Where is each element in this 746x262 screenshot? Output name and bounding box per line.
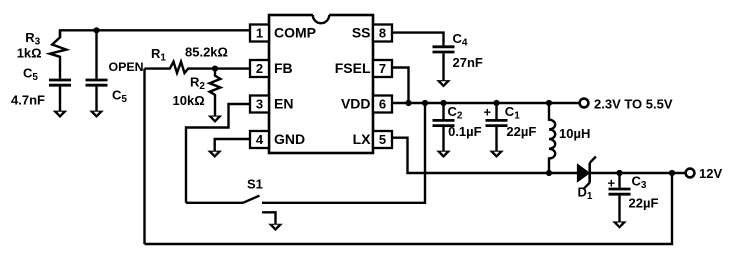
capacitor C2 [433, 120, 455, 125]
switch S1 blade and contacts [186, 202, 243, 204]
wire open C5 to ground [95, 87, 97, 112]
wire VDD to C2 [442, 103, 444, 119]
terminal 2.3V TO 5.5V [580, 99, 589, 108]
svg-text:1kΩ: 1kΩ [17, 45, 42, 60]
svg-text:85.2kΩ: 85.2kΩ [185, 44, 228, 59]
svg-text:2: 2 [256, 61, 263, 76]
svg-text:COMP: COMP [274, 25, 316, 41]
node FSEL/VDD [405, 100, 411, 106]
ground [436, 80, 451, 87]
capacitor C1 [486, 120, 508, 125]
wire pin4 GND stub [215, 139, 250, 151]
wire C4 to ground [442, 53, 444, 81]
wire pin8 (SS) to C4 [392, 33, 444, 46]
wire D1 to 12V terminal [591, 172, 686, 174]
svg-text:OPEN: OPEN [109, 60, 144, 74]
ground [436, 151, 451, 158]
svg-text:7: 7 [379, 61, 386, 76]
wire feedback drop from R1 left to bottom loop [143, 69, 145, 244]
capacitor C3 [609, 189, 631, 194]
node C2 [440, 100, 446, 106]
node L1 bottom [546, 170, 552, 176]
svg-text:4.7nF: 4.7nF [11, 93, 45, 108]
node FB junction [212, 66, 218, 72]
svg-text:12V: 12V [699, 166, 722, 181]
wire EN path pin3 to switch [186, 104, 250, 203]
wire VDD line pin6 to input terminal [392, 102, 580, 104]
svg-text:FSEL: FSEL [335, 60, 371, 76]
pin 3 box [250, 96, 269, 113]
pin 8 box [373, 25, 392, 42]
ground [53, 111, 68, 118]
svg-text:LX: LX [353, 131, 372, 147]
terminal 12V [686, 169, 695, 178]
svg-text:0.1µF: 0.1µF [448, 124, 482, 139]
svg-text:2.3V TO 5.5V: 2.3V TO 5.5V [594, 96, 673, 111]
node C3 [616, 170, 622, 176]
node A (top wire / open C5 junction) [93, 27, 99, 33]
wire top-left node to pin 1 (COMP) [60, 30, 250, 38]
svg-text:GND: GND [274, 131, 305, 147]
node switch drop [422, 100, 428, 106]
IC notch [313, 13, 329, 17]
svg-text:8: 8 [379, 26, 386, 41]
svg-text:6: 6 [379, 97, 386, 112]
wire pin7 (FSEL) to VDD line [392, 68, 409, 104]
wire C3 to ground [618, 196, 620, 223]
ground [89, 111, 104, 118]
wire VDD to C1 [495, 103, 497, 119]
ground [268, 224, 283, 231]
capacitor C4 [433, 47, 455, 52]
pin 2 box [250, 60, 269, 77]
svg-text:5: 5 [379, 132, 386, 147]
svg-text:SS: SS [352, 25, 371, 41]
resistor R1 [145, 62, 251, 73]
pin 6 box [373, 96, 392, 113]
svg-text:22µF: 22µF [629, 196, 659, 211]
pin 1 box [250, 25, 269, 42]
wire C1 to ground [495, 127, 497, 151]
node L1 top [546, 100, 552, 106]
svg-text:EN: EN [274, 96, 293, 112]
svg-text:S1: S1 [247, 177, 263, 192]
pin 5 box [373, 131, 392, 148]
wire node A down to open C5 [95, 30, 97, 78]
ground [612, 221, 627, 228]
wire C3 drop [618, 173, 620, 188]
resistor R2 [210, 69, 221, 116]
svg-text:+: + [484, 105, 492, 120]
resistor R3 [50, 30, 67, 78]
ground [208, 116, 223, 123]
svg-text:1: 1 [256, 26, 263, 41]
svg-text:VDD: VDD [341, 96, 371, 112]
wire pin5 (LX) down to output line [392, 138, 579, 173]
node C1 [493, 100, 499, 106]
wire C5 to ground [59, 87, 61, 112]
wire bottom feedback loop [145, 173, 673, 244]
node bottom loop [669, 170, 675, 176]
ground [489, 151, 504, 158]
capacitor C5 (OPEN) [86, 80, 108, 85]
svg-text:4: 4 [256, 132, 264, 147]
svg-text:10µH: 10µH [559, 126, 590, 141]
pin 4 box [250, 131, 269, 148]
svg-text:3: 3 [256, 97, 263, 112]
svg-text:10kΩ: 10kΩ [173, 93, 205, 108]
svg-text:27nF: 27nF [453, 55, 483, 70]
ground [207, 151, 222, 158]
switch ground bracket [262, 212, 276, 224]
inductor L1 10uH [549, 103, 555, 173]
svg-text:FB: FB [274, 60, 293, 76]
svg-text:22µF: 22µF [506, 124, 536, 139]
wire C2 to ground [442, 127, 444, 151]
svg-text:+: + [608, 176, 616, 191]
pin 7 box [373, 60, 392, 77]
capacitor C5 (4.7nF) [49, 80, 71, 85]
diode D1 [578, 157, 596, 189]
IC U1 body [269, 15, 373, 153]
